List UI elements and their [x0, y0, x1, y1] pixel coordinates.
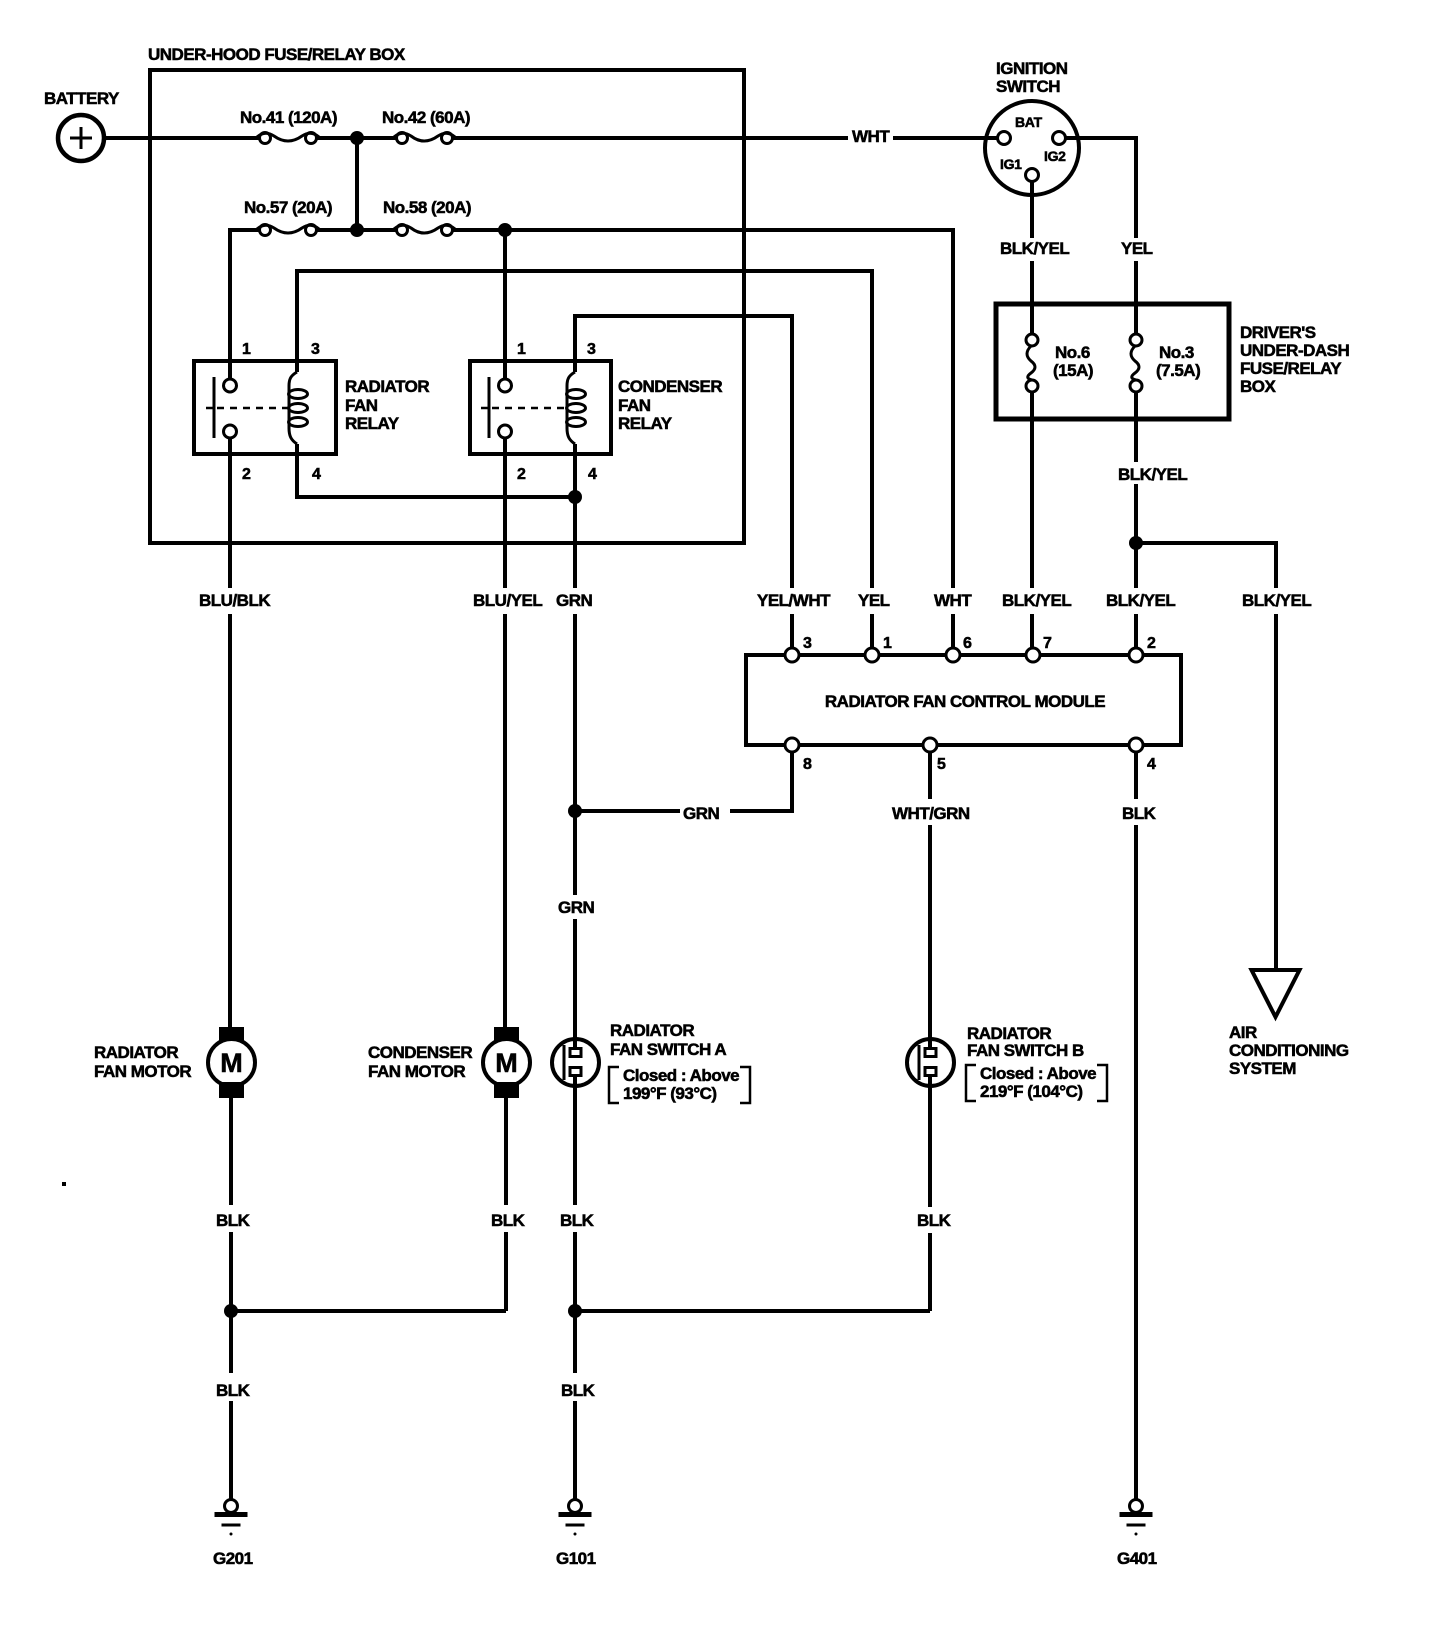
wire junction switches BLK row [575, 1309, 930, 1313]
wire GRN module pin8 to GRN junction [575, 752, 792, 823]
svg-text:FAN SWITCH B: FAN SWITCH B [967, 1041, 1084, 1060]
svg-text:G401: G401 [1117, 1549, 1157, 1568]
wire WHT fuse No.42 to ignition BAT [452, 127, 998, 146]
svg-text:WHT: WHT [852, 127, 890, 146]
svg-text:BLK: BLK [491, 1211, 526, 1230]
svg-text:3: 3 [803, 635, 812, 652]
wire colour labels row [199, 591, 1311, 610]
fuse No.41 (120A) [240, 108, 337, 144]
svg-text:GRN: GRN [558, 898, 595, 917]
fuse No.6 (15A) [1026, 334, 1093, 392]
svg-text:M: M [220, 1048, 243, 1078]
svg-text:YEL/WHT: YEL/WHT [757, 591, 831, 610]
wire BLK/YEL fuse No.6 to module pin 7 [1030, 392, 1034, 649]
driver's under-dash fuse/relay box [996, 304, 1350, 419]
svg-text:UNDER-HOOD FUSE/RELAY BOX: UNDER-HOOD FUSE/RELAY BOX [148, 45, 406, 64]
wire BLK radiator fan motor to junction [216, 1098, 251, 1311]
wire YEL ignition IG2 to driver's box fuse No.3 [1066, 138, 1153, 340]
wire BLK junction to ground G201 [216, 1381, 251, 1500]
svg-text:7: 7 [1043, 635, 1052, 652]
wire battery to fuse No.41 [103, 136, 260, 140]
svg-text:1: 1 [242, 341, 251, 358]
condenser fan motor M2 [368, 1027, 530, 1098]
svg-text:BLU/BLK: BLU/BLK [199, 591, 271, 610]
svg-text:BLK: BLK [917, 1211, 952, 1230]
fuse No.57 (20A) [244, 198, 332, 236]
svg-text:6: 6 [963, 635, 972, 652]
wire BLK/YEL ignition IG1 to driver's box fuse No.6 [1000, 182, 1069, 340]
radiator fan switch A [552, 1021, 750, 1103]
svg-text:1: 1 [883, 635, 892, 652]
svg-text:BLK/YEL: BLK/YEL [1106, 591, 1175, 610]
svg-text:CONDENSER: CONDENSER [618, 377, 722, 396]
svg-text:BLK/YEL: BLK/YEL [1002, 591, 1071, 610]
svg-text:3: 3 [587, 341, 596, 358]
svg-text:BLK: BLK [560, 1211, 595, 1230]
svg-text:Closed : Above: Closed : Above [980, 1064, 1096, 1083]
wire GRN junction down to radiator fan switch A [558, 497, 595, 1050]
svg-text:FAN: FAN [618, 396, 651, 415]
wire WHT No.58 to module pin 6 [452, 230, 953, 649]
svg-text:FAN SWITCH A: FAN SWITCH A [610, 1040, 726, 1059]
node junction row1 [350, 131, 364, 145]
node junction G201 [224, 1304, 238, 1318]
svg-text:FUSE/RELAY: FUSE/RELAY [1240, 359, 1342, 378]
wire BLU/BLK radiator relay pin2 to radiator fan motor [228, 438, 232, 1029]
air conditioning system arrow [1229, 970, 1349, 1078]
ground G101 [556, 1500, 596, 1569]
wire junction row1 down to row2 [355, 138, 359, 230]
svg-text:FAN MOTOR: FAN MOTOR [94, 1062, 191, 1081]
fuse No.42 (60A) [382, 108, 470, 144]
svg-text:BLK/YEL: BLK/YEL [1118, 465, 1187, 484]
svg-text:BATTERY: BATTERY [44, 89, 120, 108]
wire row2 left corner down to relay pin1 [230, 230, 260, 379]
svg-text:WHT: WHT [934, 591, 972, 610]
svg-text:No.41 (120A): No.41 (120A) [240, 108, 337, 127]
svg-text:(15A): (15A) [1053, 361, 1093, 380]
svg-text:IG1: IG1 [1000, 156, 1022, 172]
svg-text:BLK/YEL: BLK/YEL [1242, 591, 1311, 610]
svg-text:WHT/GRN: WHT/GRN [892, 804, 970, 823]
node junction GRN module pin8 tap [568, 804, 582, 818]
stray mark [62, 1182, 66, 1186]
wire BLU/YEL condenser relay pin2 to condenser fan motor [503, 438, 507, 1029]
wire condenser relay pin4 down [573, 444, 577, 497]
wire YEL radiator relay pin3 to module pin 1 [297, 271, 872, 649]
svg-text:GRN: GRN [556, 591, 593, 610]
wire radiator relay pin4 to condenser relay pin4 junction [297, 444, 575, 497]
svg-text:SYSTEM: SYSTEM [1229, 1059, 1296, 1078]
wire junction motors BLK row [231, 1311, 506, 1373]
wire fuse No.41 to junction [316, 136, 402, 140]
under-hood fuse/relay box [148, 45, 744, 543]
svg-text:2: 2 [517, 466, 526, 483]
node junction G101 [568, 1304, 582, 1318]
svg-text:UNDER-DASH: UNDER-DASH [1240, 341, 1350, 360]
svg-text:No.6: No.6 [1055, 343, 1090, 362]
svg-text:2: 2 [242, 466, 251, 483]
ground G401 [1117, 1500, 1157, 1569]
svg-text:G101: G101 [556, 1549, 596, 1568]
svg-text:8: 8 [803, 756, 812, 773]
svg-text:RADIATOR FAN CONTROL MODULE: RADIATOR FAN CONTROL MODULE [825, 692, 1105, 711]
wire BLK/YEL branch to air conditioning system [1136, 543, 1276, 969]
svg-text:BLK: BLK [216, 1381, 251, 1400]
fuse No.3 (7.5A) [1130, 334, 1200, 392]
svg-text:IG2: IG2 [1044, 148, 1066, 164]
svg-text:No.42 (60A): No.42 (60A) [382, 108, 470, 127]
wire fuse No.57 to junction row2 [316, 228, 402, 232]
svg-text:RELAY: RELAY [345, 414, 400, 433]
svg-text:No.57 (20A): No.57 (20A) [244, 198, 332, 217]
wire BLK radiator fan switch B to junction [917, 1076, 952, 1311]
svg-text:1: 1 [517, 341, 526, 358]
svg-text:No.58 (20A): No.58 (20A) [383, 198, 471, 217]
svg-text:2: 2 [1147, 635, 1156, 652]
svg-text:M: M [495, 1048, 518, 1078]
ignition switch [984, 59, 1080, 196]
svg-text:RELAY: RELAY [618, 414, 673, 433]
svg-text:BLU/YEL: BLU/YEL [473, 591, 542, 610]
ground G201 [213, 1500, 253, 1569]
svg-text:BLK/YEL: BLK/YEL [1000, 239, 1069, 258]
wire BLK/YEL fuse No.3 to module pin 2 [1118, 392, 1187, 649]
node junction BLK/YEL branch [1129, 536, 1143, 550]
wire BLK radiator fan switch A to ground G101 [560, 1076, 596, 1500]
svg-text:YEL: YEL [858, 591, 890, 610]
svg-text:FAN: FAN [345, 396, 378, 415]
svg-text:AIR: AIR [1229, 1023, 1257, 1042]
radiator fan switch B [907, 1024, 1107, 1101]
svg-text:4: 4 [312, 466, 321, 483]
svg-text:BAT: BAT [1015, 114, 1043, 130]
svg-text:(7.5A): (7.5A) [1156, 361, 1200, 380]
svg-text:BLK: BLK [561, 1381, 596, 1400]
svg-text:RADIATOR: RADIATOR [610, 1021, 694, 1040]
svg-text:BOX: BOX [1240, 377, 1277, 396]
node junction row2 right [498, 223, 512, 237]
svg-text:GRN: GRN [683, 804, 720, 823]
node junction row2 [350, 223, 364, 237]
svg-text:G201: G201 [213, 1549, 253, 1568]
svg-text:DRIVER'S: DRIVER'S [1240, 323, 1316, 342]
wire BLK condenser fan motor to junction [491, 1098, 526, 1311]
radiator fan control module U1 [746, 635, 1181, 773]
svg-text:BLK: BLK [1122, 804, 1157, 823]
node junction pin4 GRN [568, 490, 582, 504]
svg-text:5: 5 [937, 756, 946, 773]
radiator fan relay [194, 341, 429, 483]
svg-text:RADIATOR: RADIATOR [345, 377, 429, 396]
svg-text:YEL: YEL [1121, 239, 1153, 258]
svg-text:RADIATOR: RADIATOR [94, 1043, 178, 1062]
svg-text:SWITCH: SWITCH [996, 77, 1060, 96]
fuse No.58 (20A) [383, 198, 471, 236]
wire junction down to condenser relay pin1 [503, 230, 507, 379]
svg-text:199°F (93°C): 199°F (93°C) [623, 1084, 717, 1103]
svg-text:3: 3 [311, 341, 320, 358]
radiator fan motor M1 [94, 1027, 255, 1098]
wire WHT/GRN module pin5 to radiator fan switch B [892, 752, 970, 1050]
svg-text:No.3: No.3 [1159, 343, 1194, 362]
svg-text:Closed : Above: Closed : Above [623, 1066, 739, 1085]
svg-text:FAN MOTOR: FAN MOTOR [368, 1062, 465, 1081]
svg-text:BLK: BLK [216, 1211, 251, 1230]
svg-text:4: 4 [1147, 756, 1156, 773]
wire YEL/WHT condenser relay pin3 to module pin 3 [575, 316, 792, 649]
svg-text:219°F (104°C): 219°F (104°C) [980, 1082, 1083, 1101]
wire BLK module pin4 to ground G401 [1122, 752, 1157, 1499]
svg-text:CONDITIONING: CONDITIONING [1229, 1041, 1349, 1060]
svg-text:4: 4 [588, 466, 597, 483]
svg-text:CONDENSER: CONDENSER [368, 1043, 472, 1062]
svg-text:IGNITION: IGNITION [996, 59, 1068, 78]
battery B1 [44, 89, 120, 161]
condenser fan relay [470, 341, 722, 483]
